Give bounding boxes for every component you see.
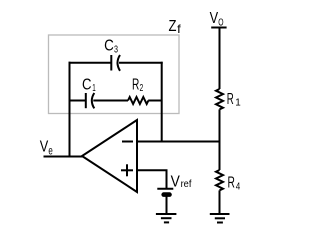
svg-text:1: 1 <box>235 96 241 108</box>
svg-text:V: V <box>171 173 180 190</box>
wire VO to R1 <box>219 28 221 90</box>
wire Vref to ground <box>166 197 168 214</box>
svg-text:1: 1 <box>92 82 96 94</box>
svg-text:3: 3 <box>114 43 118 55</box>
label R2 <box>132 77 143 95</box>
op-amp U1 <box>82 120 137 192</box>
op-amp minus sign <box>122 141 133 143</box>
wire bottom branch right <box>148 100 162 102</box>
wire bottom branch left <box>69 100 86 102</box>
svg-text:e: e <box>48 144 53 158</box>
svg-text:V: V <box>40 139 49 156</box>
wire non-inverting input line <box>138 170 167 189</box>
label Zf <box>169 18 182 36</box>
feedback network box Zf <box>49 35 180 114</box>
capacitor C3 <box>111 55 120 71</box>
terminal bar VO <box>211 27 226 29</box>
svg-text:ref: ref <box>181 178 192 190</box>
svg-text:V: V <box>210 10 219 27</box>
svg-text:f: f <box>177 22 181 36</box>
wire top branch right <box>119 62 163 64</box>
label C3 <box>104 38 118 56</box>
wire Ve input <box>44 156 84 158</box>
wire R1 to R4 <box>219 109 221 170</box>
svg-text:Z: Z <box>169 18 177 35</box>
label VO <box>210 10 224 28</box>
label Vref <box>171 173 192 190</box>
resistor R1 <box>216 89 223 109</box>
svg-text:R: R <box>132 77 139 94</box>
svg-text:2: 2 <box>140 82 144 94</box>
ground (Vref) <box>156 214 177 222</box>
svg-text:4: 4 <box>236 180 241 192</box>
label Ve <box>40 139 53 158</box>
ground (output divider) <box>210 214 230 223</box>
label R4 <box>228 175 241 193</box>
resistor R4 <box>216 170 223 190</box>
svg-text:O: O <box>218 16 223 28</box>
op-amp plus sign <box>121 164 133 176</box>
wire inverting input line <box>138 141 221 143</box>
wire R4 to ground <box>219 190 221 213</box>
battery Vref <box>157 189 173 195</box>
svg-text:R: R <box>228 175 235 192</box>
wire bottom branch middle <box>93 100 128 102</box>
wire left vertical (Zf left to summing node) <box>69 62 71 157</box>
svg-text:C: C <box>82 77 92 94</box>
wire top branch left <box>69 62 112 64</box>
resistor R2 <box>128 97 148 104</box>
capacitor C1 <box>86 93 95 108</box>
label R1 <box>227 91 241 109</box>
wire right vertical (Zf right to inverting line) <box>161 62 163 143</box>
label C1 <box>82 77 96 95</box>
svg-text:C: C <box>104 38 114 55</box>
svg-text:R: R <box>227 91 234 108</box>
